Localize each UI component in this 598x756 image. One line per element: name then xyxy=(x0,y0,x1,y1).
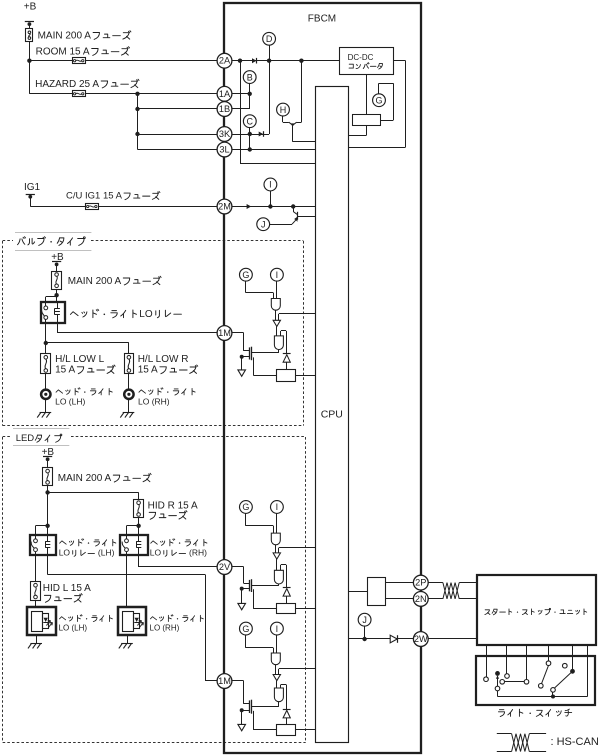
svg-text:H/L LOW R: H/L LOW R xyxy=(138,354,189,365)
svg-text:DC-DC: DC-DC xyxy=(348,53,374,62)
svg-text:IG1: IG1 xyxy=(24,182,41,193)
svg-text:+B: +B xyxy=(42,447,55,458)
svg-text:3L: 3L xyxy=(219,145,229,155)
svg-text:CPU: CPU xyxy=(321,408,343,420)
svg-text:HID L 15 A: HID L 15 A xyxy=(43,583,91,594)
svg-text:MAIN 200 A: MAIN 200 A xyxy=(68,276,122,287)
svg-text:C/U IG1 15 A: C/U IG1 15 A xyxy=(66,191,123,202)
svg-text:MAIN 200 A: MAIN 200 A xyxy=(38,30,92,41)
svg-text:J: J xyxy=(362,615,367,625)
svg-text:15 A: 15 A xyxy=(55,365,75,376)
svg-text:HID R 15 A: HID R 15 A xyxy=(148,501,198,512)
svg-text:G: G xyxy=(242,270,249,280)
svg-text:2M: 2M xyxy=(218,202,231,212)
svg-text:I: I xyxy=(276,270,279,280)
svg-text:LED: LED xyxy=(16,433,35,444)
svg-text:: HS-CAN: : HS-CAN xyxy=(551,736,598,748)
svg-text:2N: 2N xyxy=(415,594,427,604)
svg-text:LO: LO xyxy=(150,548,162,558)
svg-text:I: I xyxy=(276,502,279,512)
svg-text:H/L LOW L: H/L LOW L xyxy=(55,354,105,365)
svg-text:G: G xyxy=(242,502,249,512)
svg-text:2A: 2A xyxy=(219,56,231,66)
svg-text:(RH): (RH) xyxy=(189,548,207,558)
svg-text:I: I xyxy=(276,624,279,634)
svg-text:HAZARD 25 A: HAZARD 25 A xyxy=(35,79,99,90)
svg-text:ROOM 15 A: ROOM 15 A xyxy=(36,46,90,57)
svg-text:LO (RH): LO (RH) xyxy=(138,397,170,407)
svg-text:FBCM: FBCM xyxy=(308,13,336,24)
svg-text:LO (LH): LO (LH) xyxy=(55,397,85,407)
svg-text:1A: 1A xyxy=(219,89,231,99)
svg-text:2V: 2V xyxy=(219,562,231,572)
svg-text:LO (LH): LO (LH) xyxy=(59,623,88,632)
svg-text:1M: 1M xyxy=(218,676,231,686)
svg-text:MAIN 200 A: MAIN 200 A xyxy=(58,473,112,484)
svg-text:1M: 1M xyxy=(218,328,231,338)
svg-text:(LH): (LH) xyxy=(98,548,115,558)
svg-text:2W: 2W xyxy=(414,634,428,644)
svg-text:3K: 3K xyxy=(219,129,231,139)
svg-text:LO: LO xyxy=(59,548,71,558)
svg-text:G: G xyxy=(375,95,382,105)
svg-text:J: J xyxy=(261,219,266,229)
svg-text:LO: LO xyxy=(139,309,153,320)
svg-text:B: B xyxy=(247,72,253,82)
svg-text:I: I xyxy=(269,180,272,190)
svg-text:1B: 1B xyxy=(219,104,230,114)
svg-text:2P: 2P xyxy=(415,578,426,588)
svg-text:H: H xyxy=(280,105,287,115)
svg-text:LO (RH): LO (RH) xyxy=(150,623,180,632)
svg-text:15 A: 15 A xyxy=(138,365,158,376)
svg-text:+B: +B xyxy=(51,252,64,263)
svg-text:+B: +B xyxy=(24,2,37,13)
svg-text:D: D xyxy=(266,34,273,44)
svg-text:G: G xyxy=(242,624,249,634)
svg-text:C: C xyxy=(247,116,254,126)
